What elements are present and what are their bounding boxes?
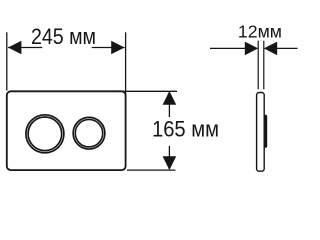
svg-text:165 мм: 165 мм	[152, 117, 219, 142]
svg-text:245 мм: 245 мм	[31, 24, 96, 49]
svg-text:12мм: 12мм	[238, 22, 282, 42]
